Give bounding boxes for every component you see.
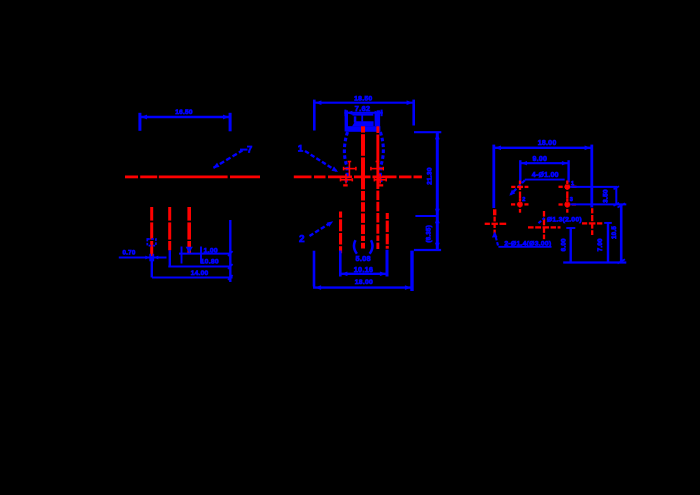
svg-text:10.80: 10.80 <box>201 259 219 266</box>
crosshair lower-left <box>341 174 353 184</box>
dim tick left <box>138 113 141 131</box>
pin4 red (right, below board) <box>386 213 389 249</box>
hole BC cross <box>528 211 561 239</box>
svg-text:2: 2 <box>522 197 525 203</box>
hole UL cross <box>511 181 528 199</box>
second dim line <box>520 162 568 164</box>
bottom outer dim tick left <box>313 251 316 287</box>
pin1 red (left, below board) <box>339 212 342 254</box>
svg-text:7.00: 7.00 <box>597 238 604 251</box>
center pin gap marks <box>361 133 365 135</box>
svg-text:18.00: 18.00 <box>538 140 557 147</box>
label leader arrowhead <box>509 190 515 196</box>
side dim vertical <box>436 132 439 250</box>
centerline segment <box>373 175 397 178</box>
inner dim tick right <box>381 110 383 117</box>
inner dim arrow left <box>346 111 352 115</box>
crosshair upper-right <box>371 162 383 177</box>
vertical V1 <box>570 228 572 263</box>
dim arrow right <box>223 115 229 120</box>
body left side <box>345 110 348 131</box>
leader to hole BC <box>539 218 545 223</box>
center pin dashed lower <box>361 178 365 249</box>
hole ML center dot <box>518 202 523 207</box>
bottom outer dim tick right <box>410 251 413 291</box>
shelf1 serif tick a <box>181 247 183 264</box>
dashed pad box around pin P1 <box>147 239 156 246</box>
bottom inner dim line <box>340 273 387 275</box>
center pin solid top <box>361 126 365 176</box>
leader top dashes <box>305 151 337 171</box>
svg-text:9.00: 9.00 <box>532 156 547 163</box>
dim line 16.50 <box>140 116 230 118</box>
crosshair upper-left <box>344 162 356 177</box>
label shelf <box>498 246 551 248</box>
paren arc left <box>354 240 357 254</box>
label shelf line <box>525 179 565 181</box>
hole MR center dot <box>565 202 570 207</box>
body inner wedge <box>352 121 374 126</box>
centerline segment <box>159 175 228 178</box>
leader bottom arrowhead <box>327 221 333 227</box>
vertical V3 <box>620 204 623 261</box>
hole ML cross <box>511 199 529 213</box>
hole BR cross <box>582 208 602 235</box>
svg-text:4-Ø1.00: 4-Ø1.00 <box>532 172 559 179</box>
top dim line <box>493 147 592 149</box>
svg-text:18.50: 18.50 <box>354 95 372 102</box>
bottom inner dim tick right <box>386 250 389 277</box>
svg-text:10.5: 10.5 <box>611 226 618 239</box>
pin3 red upper <box>376 126 379 176</box>
inner dim arrow right <box>375 111 381 115</box>
shelf line 3 <box>152 277 233 279</box>
small vertical dim serifs <box>614 186 620 189</box>
slash tick shelf3 <box>228 275 233 280</box>
bottom inner arrows <box>341 272 347 277</box>
leader to centerline with label <box>214 150 243 167</box>
top dim tick right (long extension down) <box>590 145 593 208</box>
svg-text:0.70: 0.70 <box>122 250 135 257</box>
top dim tick left <box>313 100 316 131</box>
centerline segment <box>140 175 157 178</box>
second dim arrows <box>521 161 527 165</box>
side ext line mid <box>415 215 436 217</box>
leader arrowhead up <box>492 232 498 238</box>
svg-text:7: 7 <box>247 145 253 156</box>
red tick under left crosshair <box>343 184 348 186</box>
top dim arrow left <box>315 100 321 105</box>
top dim tick left (long extension down to hole) <box>492 145 495 208</box>
arrow V at pin P3 tip <box>186 247 193 254</box>
svg-text:18.00: 18.00 <box>355 279 373 286</box>
hole UR center dot <box>565 185 570 190</box>
svg-text:(6.35): (6.35) <box>426 225 433 243</box>
centerline segment <box>399 175 412 178</box>
centerline segment <box>328 175 352 178</box>
centerline segment <box>314 175 326 178</box>
bottom outer dim line <box>313 286 412 288</box>
svg-text:6.00: 6.00 <box>561 238 568 251</box>
funnel dashed left <box>344 132 347 182</box>
second dim tick right <box>567 160 569 182</box>
svg-text:16.50: 16.50 <box>175 109 193 116</box>
top dim arrow right <box>407 100 413 105</box>
top dim line <box>313 102 415 104</box>
svg-text:21.30: 21.30 <box>426 167 433 185</box>
tick top V1 <box>566 227 575 229</box>
paren arc right <box>370 240 373 254</box>
bottom reference line <box>563 261 626 263</box>
side dim arrows <box>435 133 440 139</box>
shelf line 2 <box>168 266 230 268</box>
pin P1 extension drop <box>151 256 153 277</box>
V3 serif top <box>618 203 626 207</box>
shelf line for 0.70 <box>119 257 167 259</box>
svg-text:1: 1 <box>298 144 304 155</box>
svg-text:3: 3 <box>570 197 573 203</box>
svg-text:Ø1.3(2.00): Ø1.3(2.00) <box>547 216 582 223</box>
crosshair lower-right <box>374 174 386 184</box>
centerline segment <box>230 175 260 178</box>
second dim tick left <box>519 160 521 183</box>
slash tick shelf1 <box>228 251 233 256</box>
inner dim tick left <box>344 110 346 117</box>
leader top arrowhead <box>332 166 339 172</box>
pin3 red lower dashed <box>376 178 379 249</box>
shelf line 1 <box>179 253 230 255</box>
inner dim line <box>344 112 383 114</box>
centerline segment <box>354 175 371 178</box>
pin P3 (right) dashed red <box>187 207 191 254</box>
body bottom band <box>347 126 380 132</box>
leader bottom dashes <box>310 223 332 237</box>
label leader dashes <box>511 180 525 194</box>
leader to hole BL <box>495 234 498 246</box>
svg-text:3.50: 3.50 <box>603 189 610 203</box>
side ext line bottom <box>414 249 441 251</box>
hole UR cross <box>559 181 577 199</box>
0.70 arrows at pin1 <box>145 256 150 260</box>
V3 serif bottom <box>618 259 626 263</box>
hole BL cross <box>485 210 507 235</box>
pin P2 (mid) dashed red <box>168 207 171 250</box>
hole MR cross <box>559 199 577 213</box>
shelf1 serif tick b <box>200 247 202 264</box>
body right side <box>377 110 380 131</box>
top dim tick right <box>412 100 415 126</box>
svg-text:5.08: 5.08 <box>356 254 371 263</box>
right bracket h-line top <box>570 186 617 188</box>
bottom inner dim tick left <box>339 251 342 277</box>
bottom outer arrows <box>315 285 321 290</box>
pin P2 extension drop <box>169 250 171 266</box>
centerline segment <box>125 175 138 178</box>
small vertical dim <box>615 188 617 204</box>
body inner post center <box>361 115 363 121</box>
funnel dashed right <box>380 132 383 182</box>
side ext line top <box>414 131 441 133</box>
vertical V2 <box>607 223 609 263</box>
dim tick right <box>229 113 232 132</box>
pin P1 (left) dashed red <box>150 207 153 256</box>
dim arrow left <box>141 115 147 120</box>
tick top V2 <box>604 222 612 224</box>
body inner notch left <box>354 116 357 122</box>
body inner bar right <box>375 114 377 126</box>
hole BL red block top <box>493 209 496 215</box>
leader arrowhead <box>213 163 220 169</box>
0.70 serif ticks at pin edges <box>149 254 151 261</box>
top dim arrows <box>495 146 501 151</box>
red tick under right crosshair <box>379 184 384 186</box>
slash tick shelf2 <box>228 264 233 269</box>
centerline segment <box>414 175 422 178</box>
body top edge <box>353 114 374 116</box>
svg-text:2: 2 <box>299 234 305 245</box>
right reference vertical <box>229 220 231 282</box>
svg-text:14.00: 14.00 <box>191 270 209 277</box>
right bracket h-line mid <box>570 203 626 205</box>
centerline segment <box>294 175 312 178</box>
